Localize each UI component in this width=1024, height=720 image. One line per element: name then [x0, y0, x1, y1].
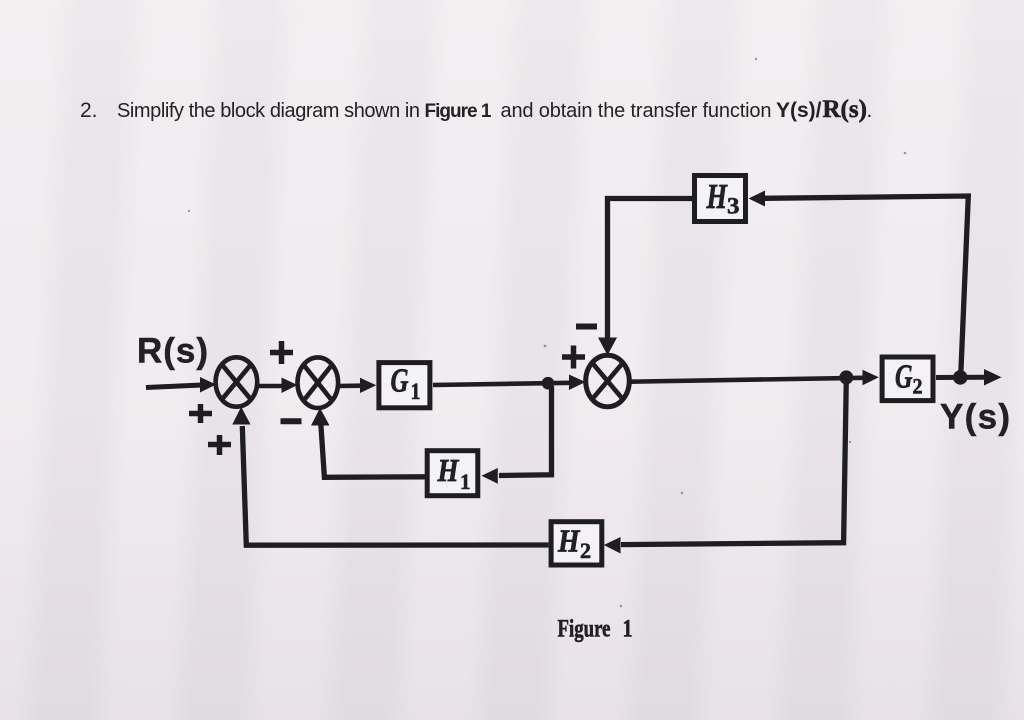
summing junction S1 [216, 357, 258, 406]
svg-text:1: 1 [623, 614, 633, 643]
svg-text:Y(s): Y(s) [940, 398, 1010, 437]
svg-text:.: . [867, 99, 873, 122]
block H3 [695, 176, 746, 222]
minus sign (H1 feedback at S2) [281, 418, 302, 424]
arrowhead into G1 [360, 378, 376, 393]
svg-text:2.: 2. [80, 99, 98, 122]
wire H3 vertical into S3 with top-left corner [608, 199, 693, 341]
arrowhead into H3 [749, 191, 766, 207]
block G2 [882, 357, 933, 401]
block G1 [379, 363, 430, 408]
arrowhead into H2 [604, 537, 621, 554]
arrowhead into S2 bottom [311, 408, 330, 426]
svg-text:R(s): R(s) [823, 96, 867, 123]
svg-text:1: 1 [411, 379, 421, 404]
node dot C (output takeoff) [953, 370, 968, 385]
title text [80, 96, 872, 123]
wire S3 to G2 [629, 378, 863, 382]
wire output [936, 375, 984, 380]
wire H1 to left corner and up into S2 [321, 425, 426, 477]
arrowhead into H1 [482, 468, 498, 484]
wire top-right segment and right vertical [764, 196, 968, 374]
arrowhead output [984, 369, 1002, 386]
wire input [146, 385, 202, 388]
svg-text:Figure 1: Figure 1 [425, 101, 492, 122]
svg-text:1: 1 [460, 469, 471, 494]
wire H2 takeoff vertical and corner [621, 379, 846, 545]
wire G1 to S3 [433, 383, 570, 385]
node dot B (H2 takeoff) [839, 370, 853, 384]
arrowhead into S1 bottom [232, 407, 250, 425]
dust specks [188, 58, 907, 608]
arrowhead into S2 [282, 378, 298, 394]
arrowhead into S3 top [598, 338, 617, 356]
summing junction S3 [586, 355, 630, 407]
svg-text:2: 2 [913, 374, 923, 399]
wire H1 takeoff vertical and corner [499, 386, 552, 476]
svg-text:2: 2 [580, 538, 591, 563]
block H1 [427, 451, 478, 496]
svg-text:G: G [895, 359, 913, 396]
plus sign (left of S3) [562, 346, 585, 369]
plus sign (input, left of S1 bottom) [189, 404, 212, 423]
block H2 [551, 522, 602, 565]
wire S2 to G1 [338, 383, 361, 388]
minus sign (H3 feedback at S3) [576, 324, 597, 330]
arrowhead into G2 [863, 370, 879, 386]
svg-text:and obtain the transfer functi: and obtain the transfer function [501, 100, 772, 122]
arrowhead into S3 [569, 375, 586, 391]
caption Figure 1 [558, 614, 633, 643]
svg-text:Figure: Figure [558, 614, 611, 643]
svg-text:Simplify the block diagram sho: Simplify the block diagram shown in [117, 100, 420, 122]
svg-text:G: G [391, 363, 409, 400]
arrowhead into S1 [200, 377, 216, 393]
svg-text:H: H [557, 523, 580, 559]
svg-text:3: 3 [727, 194, 740, 219]
plus sign (above wire S1-S2) [270, 341, 293, 364]
summing junction S2 [298, 357, 339, 408]
svg-text:R(s): R(s) [137, 332, 208, 371]
svg-text:H: H [437, 452, 460, 488]
wire S1 to S2 [257, 384, 283, 389]
wire H2 to left corner and up into S1 [242, 426, 548, 545]
plus sign (H2 feedback, lower left of S1) [208, 435, 231, 455]
svg-text:H: H [706, 177, 729, 216]
node dot A (H1 takeoff) [542, 377, 555, 390]
svg-text:Y(s)/: Y(s)/ [776, 99, 822, 122]
